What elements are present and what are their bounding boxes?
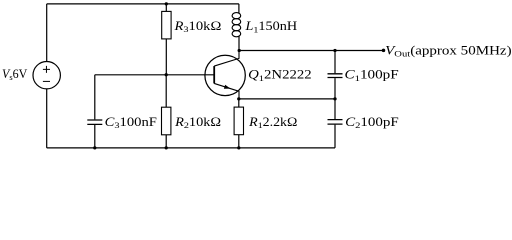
node dot C3 / bottom rail: [93, 146, 96, 149]
voltage source Vs: [33, 61, 60, 88]
resistor R1: [234, 107, 243, 135]
wire base node: [95, 74, 214, 76]
wire left column bottom (Vs to bottom rail): [46, 89, 48, 148]
wire C2 branch: [334, 99, 336, 148]
wire L1 leads: [238, 4, 240, 51]
svg-text:VOut(approx 50MHz): VOut(approx 50MHz): [385, 43, 511, 58]
node dot emitter / R1: [237, 97, 240, 100]
svg-text:R12.2kΩ: R12.2kΩ: [248, 115, 297, 130]
svg-text:C3100nF: C3100nF: [105, 115, 157, 130]
capacitor C1 plates: [328, 74, 343, 78]
wire R2 branch: [165, 75, 167, 148]
svg-text:R310kΩ: R310kΩ: [173, 19, 221, 34]
wire output (collector node to Vout terminal): [239, 50, 383, 52]
svg-text:Vs6V: Vs6V: [2, 67, 27, 82]
svg-text:L1150nH: L1150nH: [244, 19, 297, 34]
node dot L1 / collector / output: [238, 49, 241, 52]
inductor L1: [232, 13, 241, 37]
svg-text:R210kΩ: R210kΩ: [174, 115, 221, 130]
capacitor C2 plates: [328, 120, 343, 125]
node dot base / R3 / R2: [165, 73, 168, 76]
node dot R2 / bottom rail: [165, 146, 168, 149]
transistor Q1: [205, 51, 245, 99]
svg-text:C1100pF: C1100pF: [345, 68, 399, 83]
wire emitter node to C1/C2 junction: [239, 98, 335, 100]
capacitor C3 plates: [87, 120, 102, 124]
resistor R3: [162, 11, 171, 39]
resistor R2: [162, 107, 171, 135]
wire R1 branch: [238, 99, 240, 148]
wire bottom rail: [47, 147, 335, 149]
node dot R1 / bottom rail: [237, 146, 240, 149]
node dot top rail / R3: [165, 2, 168, 5]
svg-text:Q12N2222: Q12N2222: [248, 68, 312, 83]
node dot C1 / C2 junction: [333, 97, 336, 100]
wire left column top (Vs to top rail): [46, 4, 48, 62]
wire R3 branch: [165, 4, 167, 75]
terminal dot Vout: [382, 49, 386, 53]
node dot output / C1: [333, 49, 336, 52]
wire C1 branch: [334, 51, 336, 99]
svg-text:C2100pF: C2100pF: [345, 115, 399, 130]
wire top rail: [47, 3, 239, 5]
wire C3 branch: [94, 75, 96, 148]
